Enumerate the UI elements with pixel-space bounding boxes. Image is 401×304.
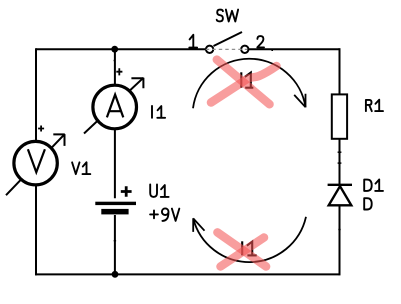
label +9V bbox=[150, 208, 179, 221]
label 2 (switch pin) bbox=[257, 36, 264, 47]
label R1 bbox=[366, 100, 383, 111]
label I1 (bottom, crossed out) bbox=[242, 241, 257, 255]
label I1 (ammeter) bbox=[152, 106, 165, 118]
battery U1 long plate bbox=[95, 202, 136, 205]
wire bottom horizontal bbox=[35, 273, 340, 275]
switch SW terminal 1 bbox=[206, 46, 213, 53]
junction node (bottom) bbox=[112, 271, 119, 278]
wire right vertical (top section) bbox=[339, 48, 341, 94]
ammeter plus polarity mark bbox=[116, 68, 122, 75]
label U1 bbox=[150, 185, 168, 197]
wire right vertical (bottom section) bbox=[339, 205, 341, 276]
current direction arc (bottom) bbox=[193, 217, 306, 262]
ammeter arrow bbox=[84, 78, 144, 134]
voltmeter V1 arrow bbox=[6, 134, 65, 195]
switch SW dashed open path bbox=[206, 48, 248, 50]
red X scribble over top I1 label bbox=[211, 60, 277, 105]
ammeter body bbox=[93, 85, 137, 129]
voltmeter V1 body bbox=[14, 141, 57, 184]
terminal tick mark on top wire bbox=[271, 49, 273, 51]
wire top-left horizontal bbox=[36, 48, 207, 50]
switch SW terminal 2 bbox=[241, 46, 248, 53]
battery U1 short plate bbox=[101, 209, 128, 215]
wire top-right horizontal bbox=[249, 48, 340, 50]
label V1 bbox=[72, 162, 90, 174]
resistor R1 bbox=[332, 94, 347, 138]
wire middle branch vertical bbox=[114, 49, 116, 274]
switch SW lever bbox=[214, 32, 243, 46]
junction node (top) bbox=[111, 46, 118, 53]
wire left vertical bbox=[35, 48, 37, 275]
label D1 bbox=[364, 180, 383, 191]
battery U1 plus polarity mark bbox=[121, 186, 132, 197]
voltmeter V1 plus polarity mark bbox=[38, 126, 44, 132]
terminal tick marks on right wire bbox=[338, 152, 342, 229]
label 1 (switch pin) bbox=[189, 35, 197, 48]
label I1 (top, crossed out) bbox=[241, 72, 253, 88]
current direction arc (top) bbox=[193, 59, 306, 108]
wire right vertical (middle section) bbox=[339, 140, 341, 186]
label D bbox=[364, 198, 372, 209]
label SW bbox=[217, 10, 238, 22]
terminal tick mark on branch wire bbox=[114, 61, 117, 241]
diode D1 bbox=[328, 185, 352, 206]
red X scribble over bottom I1 label bbox=[217, 232, 266, 266]
